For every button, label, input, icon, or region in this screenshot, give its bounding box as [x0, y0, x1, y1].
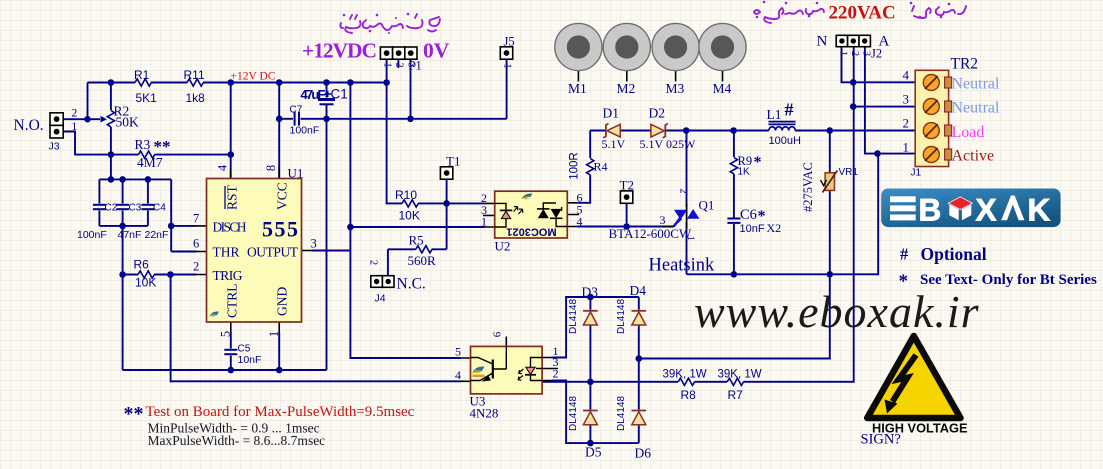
svg-text:0V: 0V	[423, 39, 450, 63]
svg-text:#275VAC: #275VAC	[801, 162, 815, 212]
junction (87.5,119.2)	[84, 116, 91, 123]
wire U3 pin2 down to bridge	[552, 381, 639, 444]
svg-text:J3: J3	[49, 141, 60, 153]
svg-text:1: 1	[903, 140, 910, 155]
svg-text:100uH: 100uH	[769, 135, 801, 147]
resistor R11	[187, 79, 203, 86]
svg-text:DL4148: DL4148	[616, 299, 627, 334]
junction (122.6,225.9)	[119, 223, 126, 230]
optocoupler U3 4N28 body	[471, 346, 543, 394]
U1 altium icon	[210, 311, 220, 317]
wire OUTPUT	[312, 250, 351, 252]
testpoint T1	[440, 167, 452, 179]
junction (122.6,179.4)	[119, 176, 126, 183]
svg-text:3: 3	[406, 62, 417, 67]
svg-text:VR1: VR1	[839, 167, 859, 178]
svg-text:10K: 10K	[135, 276, 156, 290]
wire R6 row / TRIG	[123, 274, 197, 276]
svg-text:2: 2	[849, 51, 860, 56]
svg-text:2: 2	[72, 108, 78, 120]
junction (853.2,106.6)	[850, 103, 857, 110]
resistor R10	[402, 200, 418, 207]
svg-text:4: 4	[216, 164, 230, 171]
junction (853.2,82.3)	[850, 79, 857, 86]
svg-text:2: 2	[394, 62, 405, 67]
junction (326.5,118.8)	[323, 116, 330, 123]
wire TRIG down to U3 pin4	[171, 275, 461, 382]
svg-text:N.C.: N.C.	[397, 276, 426, 293]
op... timer U1 555 body	[207, 179, 302, 323]
mounting hole M2	[603, 23, 650, 70]
svg-text:*: *	[899, 271, 909, 292]
connector P1	[380, 47, 417, 59]
svg-text:1k8: 1k8	[186, 91, 206, 105]
resistor R5	[416, 246, 432, 253]
svg-text:#: #	[900, 245, 909, 264]
svg-text:DL4148: DL4148	[568, 396, 579, 431]
svg-text:R3: R3	[135, 137, 151, 152]
svg-text:1: 1	[72, 121, 78, 133]
svg-text:5: 5	[219, 331, 233, 337]
svg-text:See Text- Only for Bt Series: See Text- Only for Bt Series	[920, 272, 1097, 288]
svg-text:4: 4	[903, 68, 910, 83]
resistor R6	[138, 271, 154, 278]
inductor L1	[769, 122, 796, 131]
svg-text:VCC: VCC	[275, 182, 290, 210]
svg-text:R4: R4	[594, 160, 608, 174]
capacitor C2	[93, 205, 106, 209]
svg-text:L1: L1	[767, 107, 782, 122]
svg-text:D3: D3	[582, 285, 599, 300]
svg-text:R6: R6	[134, 257, 150, 271]
wire C5 column	[230, 332, 232, 370]
wire R9/C6 column	[733, 131, 735, 275]
wire row3	[853, 106, 915, 108]
U2 internals: triac	[537, 203, 567, 227]
svg-text:+12V DC: +12V DC	[231, 71, 276, 83]
junction (230.7,82.5)	[227, 79, 234, 86]
svg-text:R11: R11	[184, 68, 205, 82]
mounting hole M3	[652, 23, 699, 70]
wire DISCH/THR jog	[171, 179, 196, 251]
svg-text:1K: 1K	[738, 167, 751, 178]
junction (326.5,82.5)	[323, 79, 330, 86]
wire row4	[853, 81, 915, 83]
wire J2 pin3 to row1	[865, 47, 915, 154]
svg-text:M2: M2	[617, 81, 636, 96]
junction (110.9,82.5)	[108, 79, 115, 86]
svg-text:4M7: 4M7	[137, 155, 163, 170]
svg-text:D1: D1	[603, 106, 620, 121]
wire P1 pin3 down	[410, 59, 412, 119]
junction (829.8,274.3)	[827, 271, 834, 278]
junction (230.7,154.6)	[227, 151, 234, 158]
svg-text:2: 2	[678, 188, 689, 193]
svg-text:MaxPulseWidth- = 8.6...8.7mse: MaxPulseWidth- = 8.6...8.7msec	[148, 433, 326, 448]
svg-text:560R: 560R	[408, 253, 437, 268]
svg-text:R10: R10	[395, 188, 417, 202]
junction (350.4,82.5)	[347, 79, 354, 86]
svg-text:TR2: TR2	[951, 56, 979, 73]
svg-text:39K, 1W: 39K, 1W	[718, 368, 762, 380]
svg-text:Load: Load	[952, 124, 985, 141]
svg-text:1: 1	[382, 62, 393, 67]
svg-text:R8: R8	[681, 388, 697, 402]
svg-text:Test on Board for Max-PulseWid: Test on Board for Max-PulseWidth=9.5msec	[146, 404, 415, 420]
resistor R9 vertical	[730, 158, 737, 174]
wire cap bank top rail	[99, 178, 171, 180]
svg-text:X: X	[976, 192, 997, 228]
svg-text:#: #	[785, 100, 794, 120]
wire +12 to U2 pin1 / U3 pin5 column	[350, 83, 460, 359]
svg-text:5K1: 5K1	[136, 91, 158, 105]
wire P1 pin1 down to R10	[387, 59, 447, 203]
capacitor C4	[141, 205, 154, 209]
svg-text:R1: R1	[134, 68, 150, 82]
wire J3 pin1 to R3 row	[63, 132, 231, 155]
svg-text:1: 1	[481, 215, 487, 229]
wire GND pin column	[278, 332, 280, 370]
wire to U2 pin1	[350, 226, 484, 228]
svg-text:DL4148: DL4148	[616, 396, 627, 431]
junction (590.4,443.1)	[587, 440, 594, 447]
svg-text:Q1: Q1	[699, 198, 715, 213]
svg-text:1: 1	[685, 236, 695, 241]
resistor R7	[727, 378, 743, 385]
wire C3 column	[122, 179, 124, 370]
wire P1 pin2 stub	[397, 59, 399, 68]
svg-text:M3: M3	[666, 81, 685, 96]
junction (733.6,130.5)	[730, 127, 737, 134]
svg-text:CTRL: CTRL	[225, 283, 240, 318]
U3 internals: transistor	[471, 346, 507, 381]
svg-text:2: 2	[368, 260, 379, 265]
svg-text:C6: C6	[740, 207, 757, 223]
testpoint T2	[620, 191, 632, 203]
svg-text:N.O.: N.O.	[14, 117, 44, 134]
resistor R4 vertical	[587, 159, 594, 175]
svg-text:TRIG: TRIG	[213, 268, 243, 283]
wire J2 pin1	[842, 47, 854, 82]
svg-text:555: 555	[262, 217, 298, 242]
resistor R1	[135, 79, 151, 86]
svg-text:47uF: 47uF	[301, 87, 326, 102]
U3 pin stubs	[461, 337, 559, 382]
connector J5	[500, 47, 512, 59]
wire J5 down	[506, 59, 508, 119]
capacitor C6	[727, 219, 740, 223]
svg-text:U1: U1	[288, 166, 304, 181]
junction (122.6,274.5)	[119, 271, 126, 278]
zener D1	[603, 124, 620, 138]
svg-text:+12VDC: +12VDC	[302, 39, 377, 63]
svg-text:6: 6	[492, 331, 504, 337]
svg-text:GND: GND	[275, 287, 290, 316]
capacitor C3	[116, 205, 129, 209]
svg-text:Neutral: Neutral	[952, 100, 1001, 117]
wire D3 D5 branch	[589, 297, 591, 443]
potentiometer R2	[88, 111, 115, 127]
svg-text:100R: 100R	[569, 152, 581, 180]
U2 pin stubs	[483, 203, 579, 227]
wire C2 column	[98, 179, 100, 226]
capacitor C1 electrolytic	[318, 91, 335, 105]
svg-text:4N28: 4N28	[470, 406, 499, 421]
svg-text:**: **	[154, 137, 171, 156]
varistor VR1	[821, 171, 838, 193]
svg-text:M1: M1	[568, 81, 587, 96]
diode D4	[632, 311, 647, 325]
triac Q1	[674, 204, 700, 229]
svg-text:8: 8	[264, 165, 278, 171]
U3 altium icon	[473, 366, 485, 377]
junction (410.5,118.8)	[407, 116, 414, 123]
svg-text:DISCH: DISCH	[213, 220, 247, 235]
wire VR1 column	[829, 131, 831, 275]
svg-text:T1: T1	[446, 154, 460, 169]
svg-text:1: 1	[838, 51, 849, 56]
junction (279.2,82.5)	[276, 79, 283, 86]
junction (350.4,227)	[347, 224, 354, 231]
svg-text:Heatsink: Heatsink	[649, 256, 716, 276]
wire heatsink row	[687, 154, 879, 275]
wire R5 row to J4	[388, 249, 447, 275]
resistor R8	[678, 378, 694, 385]
wire T1 to U2 pin2	[447, 179, 485, 249]
svg-text:D2: D2	[649, 106, 666, 121]
svg-text:3: 3	[660, 213, 666, 227]
wire U3 pin1 up to bridge	[552, 297, 639, 358]
diode D5	[583, 411, 598, 425]
svg-text:X2: X2	[767, 221, 782, 235]
resistor R3	[138, 151, 154, 158]
svg-text:5.1V: 5.1V	[602, 137, 626, 151]
wire cap bank bottom rail	[99, 225, 147, 227]
junction (686.2,130.5)	[683, 127, 690, 134]
svg-text:D4: D4	[630, 283, 647, 298]
svg-text:RST: RST	[225, 184, 240, 210]
mounting hole M1	[555, 23, 602, 70]
wire mains row D1 D2 L1	[590, 130, 915, 132]
wire 0V row	[279, 118, 506, 120]
junction (230.8,370)	[228, 367, 235, 374]
wire J3 pin2 to R2	[63, 83, 88, 120]
junction (170.4,274.5)	[167, 271, 174, 278]
terminal block J1 body	[915, 70, 951, 166]
svg-text:C5: C5	[238, 344, 251, 355]
junction (590.4,297)	[587, 294, 594, 301]
wire R2 column	[110, 83, 112, 180]
Persian note top-left	[340, 13, 440, 33]
svg-text:22nF: 22nF	[145, 229, 169, 241]
svg-text:39K, 1W: 39K, 1W	[663, 368, 707, 380]
svg-text:3: 3	[861, 51, 872, 56]
svg-text:D5: D5	[585, 445, 602, 460]
wire D4mid row up	[639, 274, 830, 358]
svg-text:R5: R5	[409, 233, 424, 248]
svg-text:6: 6	[193, 237, 199, 251]
Persian note top-right	[754, 1, 966, 23]
svg-text:50K: 50K	[116, 115, 140, 130]
svg-text:THR: THR	[213, 245, 240, 260]
svg-text:100nF: 100nF	[290, 125, 320, 137]
svg-text:3: 3	[311, 237, 317, 251]
wire VCC column	[278, 83, 280, 179]
svg-text:C1: C1	[331, 87, 348, 102]
svg-text:2: 2	[193, 260, 199, 274]
connector J4	[371, 276, 394, 288]
svg-text:Neutral: Neutral	[952, 76, 1001, 93]
junction (171.2,225.9)	[168, 223, 175, 230]
wire +12V rail	[88, 82, 387, 84]
svg-text:*: *	[754, 154, 762, 171]
wire R8 R7 row	[542, 47, 854, 382]
svg-text:2: 2	[553, 367, 559, 381]
svg-text:J5: J5	[504, 35, 515, 49]
junction (446.6,203.4)	[443, 200, 450, 207]
svg-text:R7: R7	[728, 388, 744, 402]
wire T2 down	[626, 203, 628, 226]
zener D2	[651, 124, 668, 138]
svg-text:10nF: 10nF	[238, 354, 262, 366]
junction (110.9,179.4)	[108, 176, 115, 183]
mounting hole stems	[578, 71, 722, 82]
svg-text:C7: C7	[290, 105, 303, 116]
svg-text:47nF: 47nF	[118, 229, 142, 241]
svg-text:U2: U2	[495, 239, 511, 254]
svg-text:T2: T2	[620, 178, 634, 193]
svg-text:5: 5	[455, 344, 461, 358]
svg-text:5.1V 025W: 5.1V 025W	[640, 137, 696, 151]
optocoupler U2 MOC3021 body	[495, 191, 568, 238]
svg-text:D6: D6	[635, 446, 652, 461]
svg-text:BTA12-600CW: BTA12-600CW	[609, 226, 692, 241]
junction (829.8,130.6)	[827, 127, 834, 134]
svg-text:MOC3021: MOC3021	[506, 226, 556, 238]
U3 internals: LED	[518, 358, 542, 381]
junction (638.8,358.5)	[636, 355, 643, 362]
wire U2 pin4 to Q1 gate	[577, 219, 681, 227]
svg-text:K: K	[1028, 192, 1051, 228]
diode D3	[583, 311, 598, 325]
svg-text:Active: Active	[952, 148, 995, 165]
svg-text:100nF: 100nF	[77, 229, 107, 241]
U2 altium icon	[522, 193, 533, 199]
mounting hole M4	[699, 23, 746, 70]
wire D4 D6 branch	[638, 297, 640, 443]
svg-text:SIGN?: SIGN?	[861, 432, 901, 448]
junction (877.5,153.6)	[874, 150, 881, 157]
junction (626.6,226.5)	[623, 223, 630, 230]
junction (147.9,179.4)	[145, 176, 152, 183]
junction (590.4,381.8)	[587, 379, 594, 386]
wire RST column	[230, 83, 232, 179]
svg-text:10K: 10K	[399, 209, 420, 223]
svg-text:4: 4	[455, 368, 461, 382]
svg-text:M4: M4	[713, 81, 732, 96]
connector J2	[836, 35, 870, 46]
svg-text:www.eboxak.ir: www.eboxak.ir	[694, 286, 980, 337]
svg-text:J4: J4	[375, 293, 386, 305]
capacitor C5	[224, 350, 237, 354]
svg-text:J2: J2	[871, 47, 882, 61]
diode D6	[632, 411, 647, 425]
Q1 gate lead	[663, 226, 673, 228]
svg-text:N: N	[817, 33, 828, 49]
U2 internals: LED	[495, 203, 523, 227]
svg-text:C4: C4	[153, 203, 166, 214]
svg-text:J1: J1	[911, 168, 922, 179]
wire C1 / gnd link column	[326, 83, 328, 371]
svg-text:OUTPUT: OUTPUT	[247, 245, 299, 260]
wire C4 column	[147, 179, 149, 226]
svg-text:C3: C3	[129, 203, 142, 214]
svg-text:1: 1	[502, 63, 513, 68]
svg-text:DL4148: DL4148	[568, 299, 579, 334]
svg-text:7: 7	[193, 212, 199, 226]
svg-text:B: B	[919, 192, 942, 228]
wire R4 column	[577, 131, 590, 203]
junction (386.6,82.5)	[383, 79, 390, 86]
connector J3	[50, 113, 63, 138]
svg-text:C2: C2	[105, 203, 118, 214]
junction (733.9,274.3)	[731, 271, 738, 278]
svg-text:2: 2	[903, 116, 910, 131]
svg-text:10nF: 10nF	[740, 223, 765, 235]
svg-text:Optional: Optional	[921, 244, 987, 264]
svg-text:3: 3	[903, 92, 910, 107]
555 pin stubs	[197, 169, 312, 333]
svg-text:4: 4	[577, 215, 583, 229]
svg-text:**: **	[124, 403, 144, 425]
junction (279.2,370)	[276, 367, 283, 374]
svg-text:1: 1	[267, 331, 281, 337]
capacitor C7	[295, 112, 299, 126]
svg-text:220VAC: 220VAC	[829, 3, 896, 24]
wire Q1 column	[686, 131, 688, 275]
junction (279.2,118.8)	[276, 116, 283, 123]
wire GND bottom	[123, 369, 327, 371]
junction (110.9,154.6)	[108, 151, 115, 158]
